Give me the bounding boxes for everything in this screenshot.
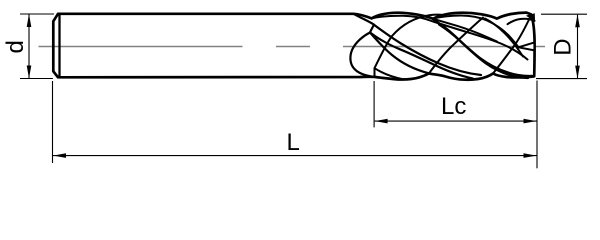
corner tooth filled wedge bbox=[527, 14, 535, 21]
svg-text:D: D bbox=[550, 38, 577, 55]
land margin line under second hump (from second dip) bbox=[433, 16, 519, 48]
flute runout C-curve at flute start bbox=[350, 33, 372, 77]
d dimension: top extension line bbox=[20, 13, 54, 15]
flute cutting edge s1' (steep pair lower) bbox=[370, 33, 473, 79]
Lc dimension line with arrows bbox=[375, 120, 537, 122]
land margin partner under second hump right side bbox=[485, 19, 523, 57]
runout edge from junction down to C tip bbox=[370, 25, 374, 33]
land margin line under first hump (from first dip) bbox=[372, 16, 528, 60]
d dimension: bottom extension line bbox=[20, 78, 53, 80]
end tooth gash line at right top corner bbox=[508, 19, 535, 24]
svg-text:d: d bbox=[2, 40, 29, 53]
runout step vertical bbox=[374, 68, 376, 77]
D dimension line with arrows bbox=[577, 15, 579, 78]
d dimension line with arrows bbox=[28, 15, 30, 79]
D dimension: bottom extension line bbox=[536, 78, 587, 80]
L dimension: left extension line bbox=[52, 81, 54, 163]
back-edge rising curve r1 (from first bottom cusp) bbox=[429, 18, 483, 74]
svg-text:L: L bbox=[287, 129, 300, 156]
flute cutting edge s2' (steep pair lower, mid) bbox=[439, 25, 528, 79]
land line: first hump arc extension past second dip bbox=[433, 19, 497, 42]
back-edge rising curve r2 (from second bottom cusp) bbox=[493, 17, 531, 74]
end mill body outline bbox=[53, 13, 534, 80]
flute cutting edge s1 (steep pair upper, from shank/flute corner) bbox=[354, 14, 482, 75]
D dimension: top extension line bbox=[541, 13, 587, 15]
L dimension line with arrows bbox=[53, 155, 537, 157]
lens lower arc from runout to first bottom cusp bbox=[370, 33, 429, 74]
svg-text:Lc: Lc bbox=[441, 93, 466, 120]
Lc dimension: left extension line bbox=[373, 81, 375, 127]
runout tail to first bottom dip bbox=[375, 68, 404, 79]
flute cutting edge s2 (steep pair upper, mid) bbox=[434, 20, 533, 76]
centerline (axis) bbox=[39, 46, 546, 48]
shared right extension line bbox=[536, 81, 538, 169]
chamfer edge line at shank left end bbox=[58, 14, 60, 78]
back-edge rising curve r0 (tangent to top after first hump) bbox=[375, 15, 446, 69]
center notch of end teeth (outlined) bbox=[519, 42, 535, 50]
